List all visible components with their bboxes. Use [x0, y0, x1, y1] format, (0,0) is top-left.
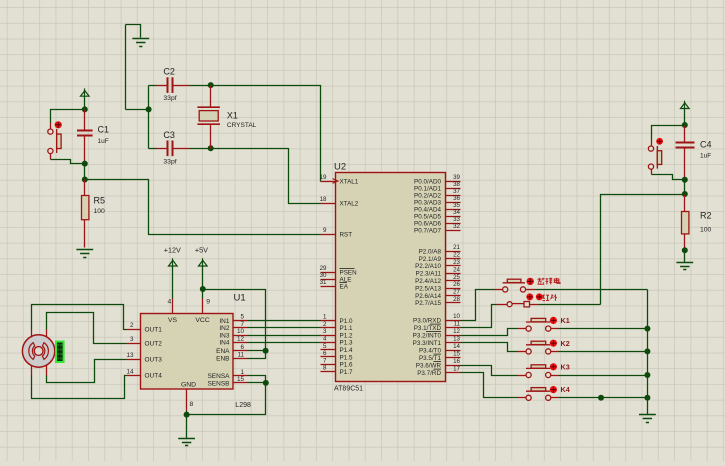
push button sensor1 [503, 279, 526, 292]
svg-text:C3: C3 [163, 130, 175, 140]
svg-text:+12V: +12V [164, 246, 181, 255]
svg-text:5: 5 [240, 314, 244, 321]
svg-text:+5V: +5V [195, 246, 208, 255]
svg-text:4: 4 [168, 298, 172, 305]
pin stub U2 pin 23 (P2.2/A10) [446, 265, 461, 267]
lead R2 bottom [684, 235, 686, 250]
label 热释电 (red) [538, 278, 545, 284]
pin stub U2 pin 18 (XTAL2) [321, 203, 336, 205]
svg-text:P1.0: P1.0 [340, 318, 353, 325]
lead sensor2 right [530, 304, 539, 306]
wire P3.1 to sensor2 [461, 305, 497, 328]
wire button2 bottom [652, 175, 685, 180]
K2 indicator dot [550, 340, 557, 347]
pin stub U2 pin 13 (P3.3/INT1) [446, 342, 461, 344]
svg-text:P3.7/RD: P3.7/RD [417, 370, 441, 377]
svg-text:P2.0/A8: P2.0/A8 [419, 248, 442, 255]
lead K4 right [551, 397, 559, 399]
svg-text:38: 38 [453, 181, 460, 188]
svg-text:P3.1/TXD: P3.1/TXD [414, 325, 442, 332]
capacitor C2 [168, 77, 173, 93]
svg-text:P1.7: P1.7 [340, 369, 353, 376]
svg-text:P0.0/AD0: P0.0/AD0 [414, 178, 441, 185]
resistor R5 [82, 196, 89, 220]
pin stub U1 IN1 (pin 5) [234, 320, 248, 322]
wire to R2 node [684, 180, 686, 195]
lead K3 left [518, 375, 527, 377]
ground (top-left) [132, 39, 149, 47]
svg-text:P0.6/AD6: P0.6/AD6 [414, 220, 441, 227]
wire to RST branch [84, 164, 86, 180]
wire XTAL1 net [211, 86, 321, 182]
wire right power [684, 109, 686, 126]
junction (C4 bottom) [682, 177, 688, 183]
svg-text:P1.5: P1.5 [340, 354, 353, 361]
junction (XTAL2 node) [208, 145, 214, 151]
junction (C1 bottom) [82, 161, 88, 167]
pin stub U2 pin 26 (P2.5/A13) [446, 288, 461, 290]
wire C3 right [190, 148, 211, 150]
svg-text:6: 6 [240, 344, 244, 351]
svg-text:9: 9 [323, 227, 327, 234]
wire SENSB stub [248, 382, 266, 384]
wire to ENA stub [248, 350, 266, 352]
svg-text:IN4: IN4 [219, 340, 230, 347]
lead motor bottom-right [46, 366, 48, 376]
svg-text:8: 8 [323, 365, 327, 372]
svg-text:RST: RST [340, 231, 353, 238]
lead K2 left [518, 351, 527, 353]
pin stub U1 ENA (pin 6) [234, 350, 248, 352]
svg-text:13: 13 [126, 352, 134, 359]
svg-text:P1.3: P1.3 [340, 340, 353, 347]
svg-text:35: 35 [453, 202, 460, 209]
svg-text:10: 10 [453, 313, 460, 320]
wire ground rail (right) [647, 290, 649, 415]
wire C2 right [190, 85, 211, 87]
capacitor C1 [77, 131, 93, 136]
pin stub U1 SENSA (pin 1) [234, 375, 248, 377]
pin stub U2 pin 31 (EA) [321, 286, 336, 288]
wire P3 to K1 [461, 329, 518, 336]
svg-text:1: 1 [240, 369, 244, 376]
svg-text:7: 7 [323, 357, 327, 364]
svg-text:1: 1 [323, 314, 327, 321]
svg-text:10: 10 [237, 328, 245, 335]
ground (bottom-right) [639, 415, 656, 423]
push button (right) [648, 146, 661, 169]
svg-text:P3.6/WR: P3.6/WR [416, 362, 442, 369]
lead motor top-left [31, 330, 33, 338]
svg-text:21: 21 [453, 244, 460, 251]
svg-text:7: 7 [240, 321, 244, 328]
wire +5V to VCC [202, 290, 204, 299]
K3 indicator dot [550, 363, 557, 370]
svg-text:IN2: IN2 [219, 325, 230, 332]
svg-text:24: 24 [453, 266, 460, 273]
pin stub U2 pin 29 (PSEN) [321, 272, 336, 274]
svg-text:P0.1/AD1: P0.1/AD1 [414, 185, 441, 192]
svg-text:18: 18 [320, 196, 327, 203]
pin stub U2 pin 11 (P3.1/TXD) [446, 327, 461, 329]
junction (K3 ground rail) [644, 372, 650, 378]
svg-text:26: 26 [453, 281, 460, 288]
label 红外 (red) [542, 295, 549, 301]
svg-text:P1.6: P1.6 [340, 362, 353, 369]
wire motor to OUT4 [32, 376, 127, 399]
lead R5 top [84, 180, 86, 196]
resistor R2 [682, 212, 689, 234]
wire P3 to K2 [461, 343, 518, 352]
wire SENSA down [248, 376, 266, 383]
pin stub U2 pin 16 (P3.6/WR) [446, 365, 461, 367]
svg-text:9: 9 [206, 298, 210, 305]
wire K2 to ground rail [559, 351, 648, 353]
svg-text:33pf: 33pf [163, 159, 176, 166]
wire C2-C3 left vertical [148, 86, 150, 149]
lead C4 top [684, 126, 686, 144]
lead C2 right [174, 85, 190, 87]
svg-text:14: 14 [453, 343, 460, 350]
K4 indicator dot [550, 386, 557, 393]
wire +5V rail [202, 267, 204, 290]
wire sensor rail vertical [601, 195, 685, 305]
IC U2 AT89C51 body [336, 173, 446, 382]
svg-text:CRYSTAL: CRYSTAL [227, 122, 257, 129]
wire power to C1 [84, 97, 86, 110]
lead C1 top [84, 110, 86, 131]
wire XTAL2 net [211, 149, 321, 204]
pin stub U2 pin 8 (P1.7) [321, 371, 336, 373]
wire K3 to ground rail [559, 375, 648, 377]
pin stub U2 pin 30 (ALE) [321, 279, 336, 281]
crystal X1 [197, 107, 220, 124]
ground (below R5) [76, 250, 93, 258]
svg-text:39: 39 [453, 174, 460, 181]
svg-text:11: 11 [454, 321, 461, 328]
svg-text:25: 25 [453, 274, 460, 281]
pin stub U1 pin4 VS [172, 299, 174, 314]
wire RST net [85, 180, 321, 235]
lead button1 top [50, 123, 52, 130]
svg-text:K2: K2 [561, 339, 570, 348]
pin stub U1 ENB (pin 11) [234, 358, 248, 360]
capacitor C3 [168, 141, 173, 157]
wire button top [51, 110, 85, 123]
lead sensor1 left [495, 289, 503, 291]
lead motor top-right [46, 330, 48, 338]
motor speed indicator bar [56, 342, 64, 363]
svg-text:C2: C2 [163, 67, 175, 77]
pin stub U2 pin 38 (P0.1/AD1) [446, 188, 461, 190]
pin stub U2 pin 32 (P0.7/AD7) [446, 230, 461, 232]
svg-text:L298: L298 [235, 402, 251, 409]
svg-text:P2.5/A13: P2.5/A13 [415, 285, 441, 292]
pin stub U2 pin 3 (P1.2) [321, 335, 336, 337]
wire motor to OUT3 [47, 360, 127, 383]
svg-text:P2.1/A9: P2.1/A9 [419, 256, 442, 263]
lead R2 top [684, 195, 686, 212]
pin stub U1 OUT4 (pin 14) [127, 375, 141, 377]
svg-text:P3.5/T1: P3.5/T1 [419, 355, 442, 362]
svg-text:AT89C51: AT89C51 [334, 386, 363, 393]
svg-text:16: 16 [453, 358, 460, 365]
wire sensor2 to rail [539, 304, 601, 306]
switch sensor2 (closed) [507, 302, 529, 307]
wire +12V rail [172, 267, 174, 299]
sensor2 dot A [526, 293, 533, 300]
wire P3.0 to sensor1 [461, 290, 495, 321]
lead sensor2 left [497, 304, 508, 306]
svg-text:P0.7/AD7: P0.7/AD7 [414, 227, 441, 234]
lead R5 bottom [84, 220, 86, 248]
svg-text:P0.2/AD2: P0.2/AD2 [414, 192, 441, 199]
junction (ENA) [263, 348, 269, 354]
svg-text:U2: U2 [334, 162, 346, 173]
sensor2 dot B [536, 293, 543, 300]
push button K1 [526, 318, 551, 331]
wire K1 to ground rail [559, 328, 648, 330]
svg-text:P1.2: P1.2 [340, 332, 353, 339]
pin stub U2 pin 12 (P3.2/INT0) [446, 335, 461, 337]
lead C1 bottom [84, 136, 86, 164]
svg-text:P2.6/A14: P2.6/A14 [415, 293, 441, 300]
svg-text:P3.2/INT0: P3.2/INT0 [413, 332, 442, 339]
button1 indicator dot [55, 121, 62, 128]
svg-text:P0.5/AD5: P0.5/AD5 [414, 213, 441, 220]
svg-text:15: 15 [237, 376, 245, 383]
wire sensor1 to ground rail [536, 289, 648, 291]
wire R2 to ground [684, 251, 686, 263]
pin stub U2 pin 24 (P2.3/A11) [446, 273, 461, 275]
button2 indicator dot [656, 138, 663, 145]
svg-text:30: 30 [320, 272, 327, 279]
svg-text:SENSA: SENSA [207, 373, 230, 380]
pin stub U2 pin 22 (P2.1/A9) [446, 258, 461, 260]
svg-text:11: 11 [237, 351, 244, 358]
pin stub U2 pin 6 (P1.5) [321, 356, 336, 358]
pin stub U2 pin 27 (P2.6/A14) [446, 295, 461, 297]
svg-text:100: 100 [700, 226, 712, 233]
wire to top-left ground [126, 25, 141, 38]
svg-text:19: 19 [320, 174, 327, 181]
pin stub U2 pin 37 (P0.2/AD2) [446, 195, 461, 197]
svg-text:EA: EA [340, 283, 349, 290]
svg-text:K4: K4 [561, 385, 570, 394]
wire motor to OUT2 [47, 313, 127, 344]
wire P3 to K4 [461, 373, 518, 398]
power +5V [199, 258, 208, 266]
wire P3 to K3 [461, 366, 518, 376]
wire to cap branch [126, 109, 149, 111]
pin stub U2 pin 2 (P1.1) [321, 327, 336, 329]
pin stub U2 pin 34 (P0.5/AD5) [446, 216, 461, 218]
wire IN1-P1.0 [248, 320, 321, 322]
svg-text:100: 100 [94, 208, 106, 215]
junction (+5V branch) [200, 286, 206, 292]
power symbol (top-left +V) [81, 88, 90, 96]
pin stub U2 pin 35 (P0.4/AD4) [446, 209, 461, 211]
svg-text:PSEN: PSEN [340, 269, 358, 276]
lead C4 bottom [684, 148, 686, 180]
lead X1 bottom [210, 125, 212, 149]
svg-text:IN1: IN1 [219, 318, 230, 325]
wire GND stub [186, 411, 188, 415]
motor M (DC motor) [22, 335, 54, 367]
svg-text:C1: C1 [98, 125, 110, 135]
svg-text:SENSB: SENSB [207, 380, 229, 387]
svg-text:5: 5 [323, 343, 327, 350]
pin stub U1 OUT3 (pin 13) [127, 359, 141, 361]
svg-text:3: 3 [130, 336, 134, 343]
power symbol (right +V) [681, 101, 690, 109]
junction (K2 ground rail) [644, 348, 650, 354]
push button K4 [526, 388, 551, 401]
svg-text:XTAL1: XTAL1 [340, 178, 359, 185]
ground (below R2) [676, 263, 693, 270]
pin stub U1 pin9 VCC [202, 299, 204, 314]
svg-text:P2.2/A10: P2.2/A10 [415, 263, 441, 270]
lead C2 left [157, 85, 169, 87]
wire ground-left vertical [125, 25, 127, 110]
svg-text:R5: R5 [94, 195, 106, 205]
svg-text:P1.1: P1.1 [340, 325, 353, 332]
svg-text:R2: R2 [700, 210, 712, 220]
svg-text:12: 12 [237, 336, 245, 343]
svg-text:29: 29 [320, 265, 327, 272]
lead X1 top [210, 86, 212, 108]
svg-text:U1: U1 [234, 293, 246, 304]
lead button2 top [651, 140, 653, 147]
svg-text:4: 4 [323, 336, 327, 343]
svg-text:3: 3 [323, 328, 327, 335]
ground (below U1) [178, 439, 195, 446]
wire IN3-P1.2 [248, 335, 321, 337]
junction (C1 top) [82, 106, 88, 112]
sensor1 indicator dot [527, 278, 534, 285]
svg-text:P3.4/T0: P3.4/T0 [419, 347, 442, 354]
svg-text:32: 32 [453, 223, 460, 230]
lead C3 right [174, 148, 190, 150]
svg-text:2: 2 [323, 321, 327, 328]
svg-text:23: 23 [453, 259, 460, 266]
svg-text:8: 8 [190, 401, 194, 408]
svg-text:IN3: IN3 [219, 332, 230, 339]
K1 indicator dot [550, 317, 557, 324]
junction (K4 ground rail) [644, 395, 650, 401]
svg-text:P2.3/A11: P2.3/A11 [416, 271, 442, 278]
svg-text:X1: X1 [227, 110, 238, 120]
svg-text:P3.3/INT1: P3.3/INT1 [413, 340, 442, 347]
pin stub U2 pin 5 (P1.4) [321, 349, 336, 351]
pin stub U2 pin 7 (P1.6) [321, 364, 336, 366]
svg-text:OUT2: OUT2 [145, 340, 163, 347]
wire motor+ to OUT1 [32, 305, 127, 330]
pin stub U1 OUT2 (pin 3) [127, 343, 141, 345]
lead K1 right [551, 328, 559, 330]
junction (R2 bottom) [682, 247, 688, 253]
pin stub U2 pin 39 (P0.0/AD0) [446, 181, 461, 183]
junction (XTAL1 node) [208, 82, 214, 88]
svg-text:GND: GND [181, 381, 196, 388]
pin stub U2 pin 36 (P0.3/AD3) [446, 202, 461, 204]
pin stub U2 pin 19 (XTAL1) [321, 181, 336, 183]
svg-text:P2.4/A12: P2.4/A12 [415, 278, 441, 285]
wire sense to ground [187, 383, 266, 415]
wire IN4-P1.3 [248, 342, 321, 344]
wire K4 to ground rail [559, 397, 648, 399]
svg-text:12: 12 [453, 328, 460, 335]
push button K3 [526, 365, 551, 378]
pin stub U2 pin 4 (P1.3) [321, 342, 336, 344]
wire IN2-P1.1 [248, 327, 321, 329]
junction (RST node) [82, 177, 88, 183]
svg-text:C4: C4 [700, 139, 712, 149]
svg-text:31: 31 [320, 279, 327, 286]
svg-text:28: 28 [453, 296, 460, 303]
svg-text:34: 34 [453, 209, 460, 216]
power +12V [169, 258, 178, 266]
pin stub U1 SENSB (pin 15) [234, 382, 248, 384]
lead button1 bottom [50, 154, 52, 160]
svg-text:17: 17 [453, 366, 460, 373]
svg-text:XTAL2: XTAL2 [340, 200, 359, 207]
pin stub U2 pin 21 (P2.0/A8) [446, 251, 461, 253]
svg-text:33: 33 [453, 216, 460, 223]
wire to ENB [248, 351, 266, 359]
svg-text:1uF: 1uF [700, 153, 711, 160]
pin stub U1 IN3 (pin 10) [234, 335, 248, 337]
junction (cap branch) [146, 106, 152, 112]
lead K2 right [551, 351, 559, 353]
pin stub U1 IN4 (pin 12) [234, 342, 248, 344]
svg-text:P2.7/A15: P2.7/A15 [415, 300, 441, 307]
svg-text:VCC: VCC [195, 317, 209, 324]
svg-text:22: 22 [453, 252, 460, 259]
svg-text:15: 15 [453, 351, 460, 358]
lead K3 right [551, 375, 559, 377]
junction (SENSB) [263, 380, 269, 386]
svg-text:P0.3/AD3: P0.3/AD3 [414, 199, 441, 206]
svg-text:K1: K1 [561, 316, 570, 325]
svg-text:33pf: 33pf [163, 95, 176, 102]
wire C3 left [149, 148, 157, 150]
pin stub U1 GND (pin 8) [186, 390, 188, 411]
svg-text:P3.0/RXD: P3.0/RXD [413, 317, 441, 324]
push button (reset left) [48, 129, 61, 154]
svg-text:OUT4: OUT4 [145, 373, 163, 380]
lead button2 bottom [651, 170, 653, 175]
junction (C4 top) [682, 122, 688, 128]
svg-text:ENA: ENA [216, 348, 230, 355]
svg-text:ENB: ENB [216, 356, 229, 363]
lead C3 left [157, 148, 169, 150]
svg-text:P0.4/AD4: P0.4/AD4 [414, 206, 441, 213]
wire +5V to ENA [203, 290, 266, 351]
svg-text:37: 37 [453, 188, 460, 195]
lead K1 left [518, 328, 527, 330]
pin stub U2 pin 1 (P1.0) [321, 320, 336, 322]
wire button2 top [652, 126, 685, 140]
svg-text:P1.4: P1.4 [340, 347, 353, 354]
pin marker XTAL1 [333, 179, 339, 184]
wire button bottom [51, 160, 85, 164]
junction (stray, K4 row) [598, 395, 604, 401]
push button K2 [526, 341, 551, 354]
svg-text:2: 2 [130, 322, 134, 329]
svg-text:VS: VS [168, 317, 178, 324]
pin stub U2 pin 28 (P2.7/A15) [446, 302, 461, 304]
